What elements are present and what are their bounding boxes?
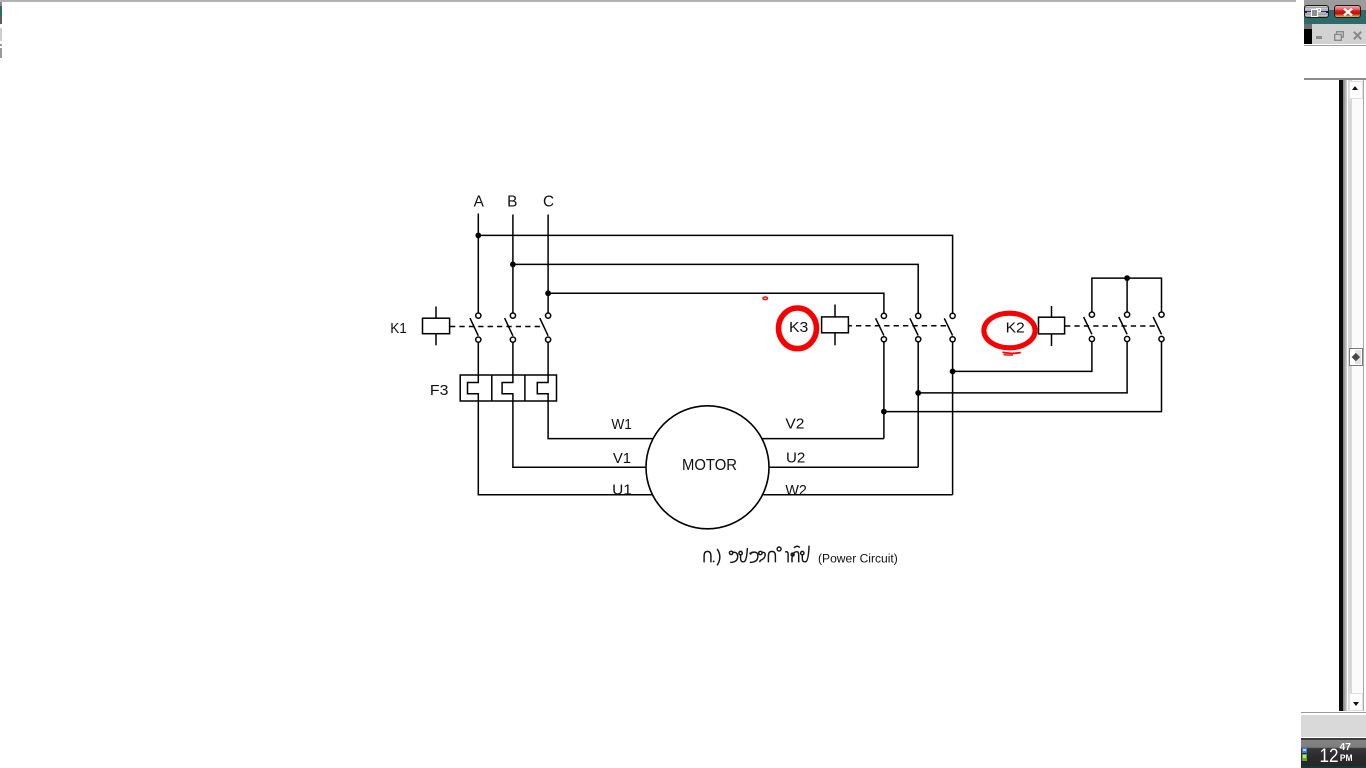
junction dot W2 branch [950, 369, 956, 375]
scrollbar black bar [1339, 80, 1343, 711]
K1 contact pole 1 [470, 313, 481, 375]
svg-text:U1: U1 [612, 482, 632, 499]
svg-text:A: A [474, 194, 485, 211]
svg-text:V2: V2 [785, 415, 804, 432]
junction dot bus B [510, 262, 516, 268]
motor terminal label V2 [785, 415, 804, 432]
motor terminal label U1 [612, 482, 632, 499]
MDI strip dark corner [1304, 24, 1312, 28]
F3 heater element phase C [537, 375, 548, 401]
wire motor U2 up to K3 contact 2 [769, 342, 918, 467]
tray icon [1302, 748, 1307, 753]
scrollbar up button [1349, 81, 1363, 99]
svg-text:C: C [543, 194, 554, 211]
wire bus C to K3 contact 1 [548, 293, 884, 313]
scrollbar thumb with diamond [1349, 348, 1363, 366]
K2 label [1006, 319, 1025, 336]
caption Latin: (Power Circuit) [818, 551, 898, 565]
wire F3 phase B to motor V1 [513, 401, 646, 467]
MDI child window strip [1312, 24, 1366, 44]
MDI minimize icon [1316, 36, 1322, 38]
wire motor V2 up to K3 contact 1 [762, 342, 884, 438]
K3 contact pole 3 [944, 313, 955, 342]
contactor coil K2 [1039, 306, 1065, 346]
K2 dashed actuator link [1065, 325, 1156, 327]
K2 contact pole 2 [1119, 312, 1130, 342]
taskbar [1301, 740, 1366, 768]
caption Thai: ko.) [704, 549, 720, 566]
svg-text:B: B [507, 194, 517, 211]
svg-text:V1: V1 [613, 450, 631, 467]
node B label [507, 194, 517, 211]
MDI restore icon [1334, 31, 1344, 41]
motor terminal label W2 [785, 482, 807, 499]
motor M circle [646, 406, 769, 529]
wire U2 branch to K2 contact 2 [918, 342, 1127, 393]
svg-text:K2: K2 [1006, 319, 1025, 336]
motor label [682, 457, 737, 474]
junction dot bus C [545, 290, 551, 296]
K3 dashed actuator link [849, 325, 946, 327]
junction dot U2 branch [915, 390, 921, 396]
svg-text:MOTOR: MOTOR [682, 457, 737, 474]
scrollbar down button [1349, 693, 1363, 711]
wire phase B drop [512, 215, 514, 313]
red annotation circle around K3 [779, 308, 817, 349]
small red artifact mark [763, 297, 768, 300]
K1 dashed actuator link [450, 326, 543, 328]
F3 label [430, 382, 449, 399]
contactor coil K1 [423, 307, 450, 346]
wire phase A drop [477, 214, 479, 313]
clock 12:47 PM [1296, 705, 1366, 768]
junction dot star bus [1124, 275, 1130, 281]
left edge sliver of chrome [0, 2, 2, 5]
wire W2 branch to K2 contact 1 [953, 342, 1092, 372]
F3 heater element phase B [502, 375, 513, 401]
caption Thai: word wongjon kamlang [729, 546, 809, 563]
svg-text:U2: U2 [786, 450, 805, 467]
taskbar corner: dark separation [1301, 738, 1366, 740]
K3 contact pole 2 [910, 313, 921, 342]
junction dot V2 branch [881, 409, 887, 415]
red underline scribble below K2 [1003, 352, 1021, 355]
wire motor W2 up to K3 contact 3 [764, 342, 953, 494]
wire bus A to K3 contact 3 [478, 235, 952, 313]
K2 contact pole 1 [1084, 312, 1095, 342]
scrollbar track [1348, 80, 1362, 711]
K3 contact pole 1 [876, 313, 887, 342]
scrollbar grey fade [1343, 80, 1347, 711]
wire F3 phase C to motor W1 [548, 401, 653, 439]
svg-text:F3: F3 [430, 382, 449, 399]
node A label [474, 194, 485, 211]
K1 contact pole 2 [505, 313, 516, 375]
motor terminal label U2 [786, 450, 805, 467]
red annotation circle around K2 [984, 313, 1035, 348]
window chrome: teal title bar fragment [1304, 10, 1366, 24]
junction dot bus A [475, 233, 481, 239]
window chrome: top grey edge [0, 0, 1296, 2]
svg-text:W2: W2 [785, 482, 807, 499]
window chrome: grey band top-right [1304, 0, 1366, 10]
overload relay F3 box [460, 375, 556, 401]
MDI close icon [1353, 31, 1362, 40]
wire bus B to K3 contact 2 [513, 264, 918, 313]
F3 heater element phase A [468, 375, 479, 401]
scroll area top line [1304, 78, 1366, 80]
K3 label [789, 319, 808, 336]
K1 contact pole 3 [540, 313, 551, 375]
star point bus above K2 [1092, 278, 1162, 312]
taskbar corner: grey block [1301, 715, 1366, 737]
contactor coil K3 [822, 305, 849, 346]
motor terminal label V1 [613, 450, 631, 467]
close button (title bar) [1334, 5, 1361, 18]
restore button (title bar) [1304, 5, 1329, 18]
line under MDI strip [1304, 45, 1366, 46]
svg-text:K1: K1 [390, 320, 407, 337]
taskbar corner: thin line [1301, 712, 1366, 713]
svg-text:K3: K3 [789, 319, 808, 336]
wire V2 branch to K2 contact 3 [884, 342, 1162, 412]
wire F3 phase A to motor U1 [478, 401, 652, 495]
svg-text:(Power Circuit): (Power Circuit) [818, 551, 898, 565]
motor terminal label W1 [611, 416, 632, 433]
svg-text:W1: W1 [611, 416, 632, 433]
wire phase C drop [547, 215, 549, 313]
K1 label [390, 320, 407, 337]
node C label [543, 194, 554, 211]
K2 contact pole 3 [1153, 312, 1164, 342]
